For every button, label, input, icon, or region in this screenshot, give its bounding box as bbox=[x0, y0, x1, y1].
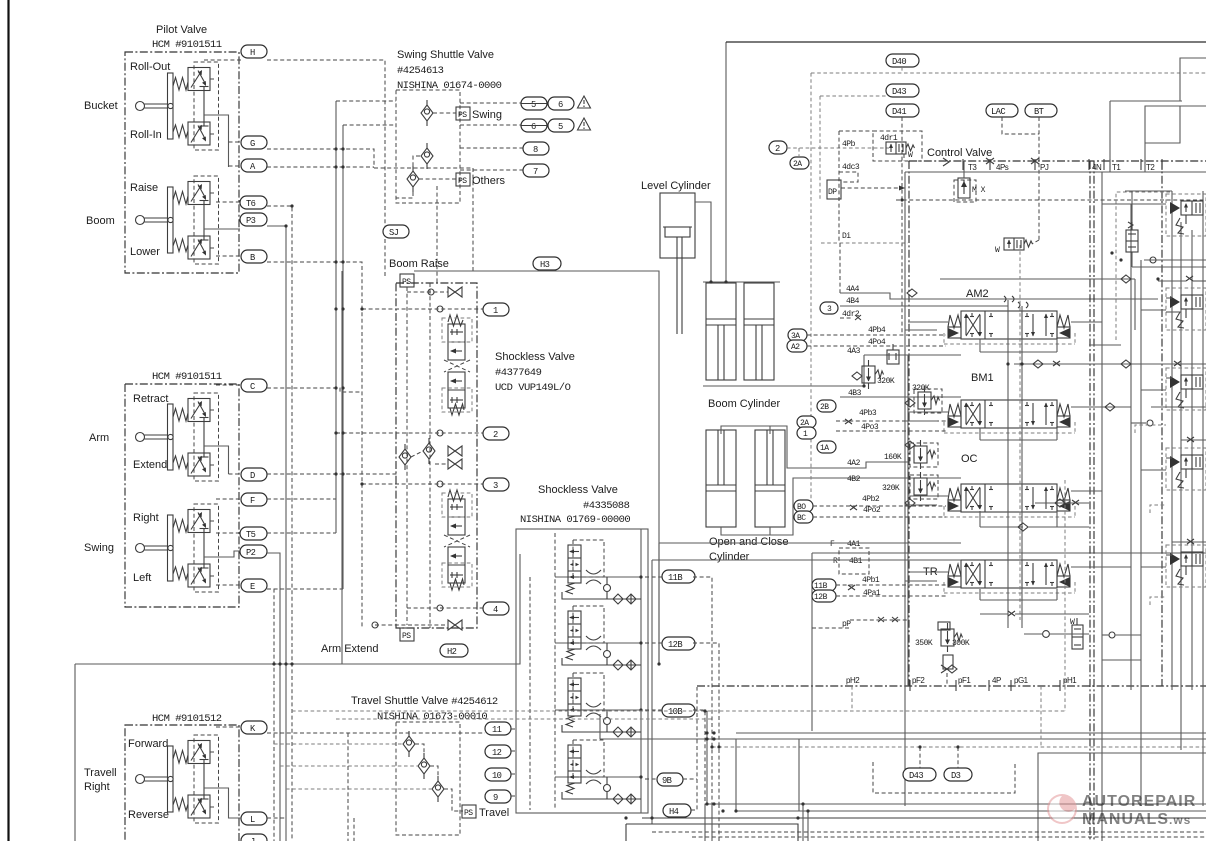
svg-text:320K: 320K bbox=[882, 484, 900, 493]
svg-text:T1: T1 bbox=[1112, 163, 1121, 172]
relief 350K bbox=[915, 622, 970, 669]
svg-text:B: B bbox=[250, 253, 255, 263]
PS others bbox=[456, 173, 506, 187]
wire C stub bbox=[216, 384, 241, 386]
oval 5b bbox=[548, 119, 574, 132]
4N riser T1 bbox=[1109, 101, 1111, 172]
4Po3 dash bbox=[836, 423, 946, 432]
11B drop bbox=[693, 577, 712, 806]
svg-text:4B4: 4B4 bbox=[846, 297, 860, 306]
oval 8 bbox=[523, 142, 549, 155]
wire K line bbox=[267, 732, 485, 734]
svg-text:W: W bbox=[1070, 618, 1075, 627]
svg-text:H3: H3 bbox=[540, 260, 550, 270]
svg-text:Lower: Lower bbox=[130, 246, 160, 258]
svg-text:UCD VUP149L/O: UCD VUP149L/O bbox=[495, 382, 571, 394]
travel shuttle feed 3 bbox=[286, 788, 432, 790]
relief 160K bbox=[884, 440, 938, 469]
spool OC bbox=[944, 484, 1075, 517]
shockless valve unit upper bbox=[442, 315, 472, 415]
wire oc bottom bbox=[721, 527, 770, 535]
port ticks top bbox=[963, 159, 1162, 170]
svg-text:PS: PS bbox=[464, 809, 473, 818]
right bank valve 4 bbox=[1166, 448, 1206, 490]
bottom dashed bus 3 bbox=[712, 746, 1206, 748]
svg-text:Pilot Valve: Pilot Valve bbox=[156, 24, 207, 36]
svg-text:Retract: Retract bbox=[133, 393, 168, 405]
oval 3 bbox=[483, 478, 509, 491]
oval 5 struck bbox=[521, 97, 547, 110]
svg-text:2: 2 bbox=[493, 430, 498, 440]
shockless valve unit lower bbox=[442, 490, 472, 590]
D3 riser bbox=[957, 747, 959, 768]
oval D3 bbox=[944, 768, 972, 781]
connector oval B bbox=[241, 250, 267, 263]
bottom solid pair a bbox=[736, 732, 1206, 734]
svg-text:12B: 12B bbox=[668, 640, 682, 650]
oval BT bbox=[1025, 104, 1057, 117]
junction diamond row2 bbox=[1035, 499, 1089, 507]
svg-text:C: C bbox=[250, 382, 255, 392]
wire F stub bbox=[216, 498, 241, 500]
D41 drop bbox=[901, 117, 903, 335]
bottom solid rail 2 bbox=[642, 817, 1206, 819]
wire bucket output bbox=[204, 115, 229, 167]
row1 check bbox=[407, 287, 462, 297]
pilot bus E dashed bbox=[267, 589, 274, 841]
oval SJ bbox=[383, 225, 409, 238]
connector oval E bbox=[241, 579, 267, 592]
bottom port ticks bbox=[910, 680, 1060, 691]
TR out wires bbox=[980, 567, 1131, 600]
oval 11 bbox=[485, 722, 511, 735]
4B3 line bbox=[840, 389, 961, 398]
svg-text:pF1: pF1 bbox=[958, 676, 971, 685]
right bank valve 2 bbox=[1166, 288, 1206, 330]
svg-text:#4377649: #4377649 bbox=[495, 367, 542, 379]
wire travel output bbox=[204, 788, 241, 818]
rb X mark 3 bbox=[1172, 539, 1206, 544]
T1 wires bbox=[1132, 252, 1206, 267]
svg-text:H2: H2 bbox=[447, 647, 457, 657]
svg-text:T6: T6 bbox=[246, 199, 256, 209]
svg-text:HCM #9101511: HCM #9101511 bbox=[152, 371, 222, 383]
svg-text:F: F bbox=[250, 496, 255, 506]
wire G line bbox=[267, 149, 374, 168]
wire shd3 drop bbox=[396, 192, 413, 198]
travel shuttle valve box bbox=[396, 722, 460, 835]
port marks bbox=[943, 158, 1039, 166]
svg-text:3: 3 bbox=[493, 481, 498, 491]
pilot bus H to boom raise bbox=[267, 60, 385, 278]
4A4 upper line bbox=[940, 275, 1135, 330]
wire shd2 bend bbox=[413, 156, 420, 166]
wire T6 stub bbox=[216, 201, 240, 203]
travel return riser 2 bbox=[658, 543, 660, 664]
svg-text:4P: 4P bbox=[992, 676, 1001, 685]
bottom box drop 3 bbox=[802, 804, 804, 841]
valve body left edge bbox=[904, 172, 906, 806]
bottom solid pair b bbox=[600, 738, 1206, 740]
shockless valve 2 inner dashed left bbox=[554, 533, 556, 810]
pilot unit Boom bbox=[136, 176, 219, 264]
wire oc return bbox=[745, 478, 961, 535]
oval 9 bbox=[485, 790, 511, 803]
svg-text:Others: Others bbox=[472, 175, 506, 187]
oval 4 bbox=[483, 602, 509, 615]
sensor UP bbox=[887, 344, 899, 364]
svg-text:W: W bbox=[995, 246, 1000, 255]
control valve dash-dot boundary bottom bbox=[697, 685, 1206, 687]
Di label bbox=[840, 232, 851, 293]
svg-text:2B: 2B bbox=[820, 403, 829, 412]
top right wire D bbox=[1145, 106, 1180, 143]
travel shuttle 1 bbox=[403, 731, 415, 757]
oval D43 bottom bbox=[903, 768, 936, 781]
svg-text:2: 2 bbox=[775, 144, 780, 154]
BM1 out wires bbox=[980, 403, 1206, 440]
svg-text:Control Valve: Control Valve bbox=[927, 147, 992, 159]
shockless big box bbox=[414, 271, 659, 664]
travel shuttle 3 bbox=[432, 776, 444, 802]
shockless valve 2 inner edge bbox=[640, 529, 642, 813]
svg-text:5: 5 bbox=[558, 122, 563, 132]
pH2 riser bbox=[851, 686, 853, 711]
pH1 riser upper bbox=[1064, 480, 1066, 686]
row 3-line bbox=[362, 481, 483, 487]
4Pa1 dash bbox=[836, 589, 946, 598]
wire L line bbox=[267, 817, 286, 819]
svg-text:AUTOREPAIR: AUTOREPAIR bbox=[1082, 793, 1196, 810]
solenoid 4dr1 bbox=[886, 142, 915, 161]
svg-text:Travel: Travel bbox=[479, 807, 509, 819]
wire 11 to box bbox=[511, 728, 516, 730]
oval 1b bbox=[797, 427, 816, 439]
oval 3A bbox=[788, 329, 807, 341]
wire shd3 to PS bbox=[419, 178, 456, 180]
right bank dashed enclosure bbox=[1116, 192, 1172, 605]
bottom solid rail 1 bbox=[707, 803, 1206, 805]
svg-text:4dc3: 4dc3 bbox=[842, 163, 860, 172]
watermark bbox=[1047, 793, 1196, 828]
4Pb4 dash bbox=[807, 326, 946, 335]
svg-text:PS: PS bbox=[458, 177, 467, 186]
oval 10 bbox=[485, 768, 511, 781]
F 4A1 line bbox=[659, 540, 961, 549]
wire swing out 8 bbox=[460, 147, 523, 149]
travel shuttle links bbox=[415, 744, 463, 811]
svg-text:4B1: 4B1 bbox=[849, 557, 863, 566]
wire 12 to box bbox=[511, 750, 516, 752]
connector oval P2 bbox=[240, 545, 267, 558]
svg-text:1: 1 bbox=[493, 306, 498, 316]
TR box top bbox=[812, 552, 1206, 554]
wire D line bbox=[267, 473, 397, 475]
shuttle valve mid bbox=[421, 143, 433, 169]
svg-text:W: W bbox=[908, 151, 913, 160]
svg-text:350K: 350K bbox=[915, 639, 933, 648]
wire 9B link bbox=[645, 778, 657, 780]
page border left bbox=[7, 0, 9, 841]
shockless unit 10B bbox=[555, 673, 643, 737]
svg-text:1A: 1A bbox=[820, 444, 829, 453]
connector oval J partial bbox=[241, 834, 267, 841]
svg-text:Reverse: Reverse bbox=[128, 809, 169, 821]
oval 12 bbox=[485, 745, 511, 758]
svg-text:4Pb3: 4Pb3 bbox=[859, 409, 877, 418]
mid right wires bbox=[1089, 345, 1153, 426]
H4 drop bbox=[691, 687, 697, 810]
svg-text:11: 11 bbox=[492, 725, 502, 735]
wire E line bbox=[267, 588, 343, 590]
svg-text:6: 6 bbox=[558, 100, 563, 110]
connector oval C bbox=[241, 379, 267, 392]
svg-text:pF2: pF2 bbox=[912, 676, 925, 685]
wire shd to PS bbox=[433, 112, 456, 114]
oval 7 bbox=[523, 164, 549, 177]
9B drop bbox=[683, 778, 697, 780]
4B4 line bbox=[840, 297, 1008, 306]
TR circle junction bbox=[1024, 631, 1089, 638]
connector oval T5 bbox=[240, 527, 267, 540]
svg-text:LAC: LAC bbox=[991, 107, 1005, 117]
svg-text:4Po2: 4Po2 bbox=[863, 506, 881, 515]
wire A stub bbox=[229, 165, 242, 167]
connector oval G bbox=[241, 136, 267, 149]
riser 799 bbox=[798, 739, 800, 811]
row bottom check bbox=[372, 620, 462, 630]
svg-text:#4254613: #4254613 bbox=[397, 65, 444, 77]
wire F line bbox=[267, 498, 336, 500]
svg-text:Travell: Travell bbox=[84, 767, 117, 779]
wire T5 line bbox=[267, 532, 336, 534]
shockless valve 2 box bbox=[516, 529, 648, 813]
PS swing bbox=[456, 107, 502, 121]
svg-text:BM1: BM1 bbox=[971, 372, 994, 384]
bottom dashed bus 2 bbox=[336, 718, 712, 720]
swing bus 6 top bbox=[343, 124, 396, 126]
svg-text:4A3: 4A3 bbox=[847, 347, 861, 356]
port labels top bbox=[968, 163, 1155, 172]
svg-text:MANUALS.ws: MANUALS.ws bbox=[1082, 811, 1191, 828]
rb X mark bbox=[1158, 276, 1206, 281]
R 4B1 line bbox=[652, 548, 961, 574]
oval 2B bbox=[817, 400, 836, 412]
oval 1A bbox=[817, 441, 836, 453]
column inner dashed left bbox=[429, 283, 431, 628]
OC out wires bbox=[980, 491, 1102, 531]
svg-text:Roll-Out: Roll-Out bbox=[130, 61, 170, 73]
svg-text:Cylinder: Cylinder bbox=[709, 551, 750, 563]
wire oc top bbox=[721, 426, 770, 434]
connector oval F bbox=[241, 493, 267, 506]
pilot bus T6 dashed bbox=[267, 206, 292, 841]
shockless big box left bbox=[341, 271, 343, 664]
4dr2 bbox=[840, 310, 861, 320]
svg-text:M X: M X bbox=[972, 186, 986, 195]
svg-text:4Pb: 4Pb bbox=[842, 140, 856, 149]
svg-text:Shockless Valve: Shockless Valve bbox=[538, 484, 618, 496]
svg-text:#4335088: #4335088 bbox=[583, 500, 630, 512]
svg-text:Raise: Raise bbox=[130, 182, 158, 194]
svg-text:Boom Raise: Boom Raise bbox=[389, 258, 449, 270]
relief 320K c bbox=[882, 472, 938, 507]
D43 dashed line bbox=[820, 96, 886, 200]
level cylinder body bbox=[660, 193, 695, 334]
svg-text:12: 12 bbox=[492, 748, 502, 758]
spool BM1 bbox=[944, 400, 1075, 433]
svg-text:8: 8 bbox=[533, 145, 538, 155]
wire swing out 7 bbox=[460, 169, 523, 171]
oval D43 bbox=[886, 84, 919, 97]
rb wire 2 bbox=[1166, 298, 1181, 312]
riser break marks bbox=[1004, 296, 1028, 308]
12B drop bbox=[693, 643, 719, 806]
oval 6 struck bbox=[521, 119, 547, 132]
svg-text:Bucket: Bucket bbox=[84, 100, 118, 112]
PJ solenoid bbox=[995, 238, 1039, 255]
svg-text:BT: BT bbox=[1034, 107, 1044, 117]
pG1 riser bbox=[1040, 686, 1042, 747]
swing shuttle valve box bbox=[396, 90, 460, 203]
row 1-line bbox=[362, 306, 483, 312]
svg-text:Shockless Valve: Shockless Valve bbox=[495, 351, 575, 363]
svg-text:T5: T5 bbox=[246, 530, 256, 540]
main feed riser bbox=[725, 42, 727, 282]
svg-text:D43: D43 bbox=[909, 771, 923, 781]
connector oval P3 bbox=[240, 213, 267, 226]
oval 2 bbox=[769, 141, 787, 154]
svg-text:Roll-In: Roll-In bbox=[130, 129, 162, 141]
main bus 8 bbox=[1202, 191, 1204, 806]
svg-text:H4: H4 bbox=[669, 807, 679, 817]
oval 2A bbox=[790, 157, 809, 169]
svg-text:Boom Cylinder: Boom Cylinder bbox=[708, 398, 780, 410]
valve body left edge2 bbox=[907, 355, 909, 686]
svg-text:Swing: Swing bbox=[472, 109, 502, 121]
oc cylinder L bbox=[706, 430, 736, 527]
svg-text:D: D bbox=[250, 471, 255, 481]
svg-text:DP: DP bbox=[828, 188, 837, 197]
wire 10B link bbox=[645, 709, 662, 711]
oval 9B bbox=[657, 773, 683, 786]
dashed mid line bbox=[896, 199, 1206, 201]
wire 10 to box bbox=[511, 773, 516, 775]
wire D stub bbox=[229, 473, 242, 475]
right bank valve 5 bbox=[1166, 545, 1206, 587]
svg-text:9: 9 bbox=[493, 793, 498, 803]
wire T5 stub bbox=[216, 532, 240, 534]
left stubs AM2 bbox=[905, 322, 948, 330]
junction diamond row1 bbox=[1014, 360, 1206, 368]
rb X mark 2 bbox=[1181, 437, 1206, 442]
rb wire 1 bbox=[1102, 203, 1166, 205]
AM2 out wires bbox=[980, 322, 1102, 352]
oval D40 bbox=[886, 54, 919, 67]
4Pb1 dash bbox=[836, 576, 946, 590]
svg-text:160K: 160K bbox=[884, 453, 902, 462]
main bus 2 bbox=[1130, 204, 1132, 690]
oval 11Bb bbox=[812, 579, 836, 591]
svg-text:P3: P3 bbox=[246, 216, 256, 226]
wire level cyl out bbox=[695, 202, 711, 282]
svg-text:10: 10 bbox=[492, 771, 502, 781]
bottom solid rail 1b bbox=[736, 810, 1206, 812]
svg-text:4Pa1: 4Pa1 bbox=[863, 589, 881, 598]
pilot unit Swing bbox=[136, 504, 219, 592]
main bus 3 bbox=[1140, 260, 1142, 806]
pilot bus P3 solid bbox=[267, 226, 286, 841]
svg-text:Arm: Arm bbox=[89, 432, 109, 444]
svg-text:9B: 9B bbox=[662, 776, 672, 786]
svg-text:320K: 320K bbox=[877, 377, 895, 386]
4A4 line bbox=[840, 285, 1158, 299]
svg-text:3: 3 bbox=[827, 305, 832, 314]
PJ gray dash riser bbox=[1019, 245, 1021, 620]
TR right solenoid bbox=[1070, 618, 1083, 649]
svg-text:11B: 11B bbox=[668, 573, 682, 583]
left stubs TR bbox=[905, 572, 948, 581]
svg-text:7: 7 bbox=[533, 167, 538, 177]
outer gray dashed box left bbox=[810, 73, 812, 500]
T1 solenoid bbox=[1126, 222, 1138, 252]
PS arm extend bbox=[400, 628, 414, 641]
bottom dashed box bbox=[873, 762, 1015, 793]
svg-text:AM2: AM2 bbox=[966, 288, 989, 300]
oval H4 bbox=[663, 804, 691, 817]
svg-text:J: J bbox=[250, 837, 255, 841]
pilot valve block 3 box bbox=[125, 725, 239, 841]
warning triangle 1 bbox=[578, 96, 591, 108]
T3 check valve bbox=[954, 161, 986, 202]
oval 11B bbox=[662, 570, 695, 583]
svg-text:R: R bbox=[833, 557, 838, 566]
connector oval H bbox=[241, 45, 267, 58]
svg-text:4Pb4: 4Pb4 bbox=[868, 326, 886, 335]
svg-text:D40: D40 bbox=[892, 57, 906, 67]
pilot box bbox=[821, 131, 908, 243]
svg-text:HCM #9101512: HCM #9101512 bbox=[152, 713, 222, 725]
D40 dashed line bbox=[811, 67, 1206, 73]
section boundary 4N bbox=[1089, 161, 1091, 841]
svg-text:T3: T3 bbox=[968, 163, 977, 172]
4Po2 dash bbox=[813, 506, 946, 517]
bottom circulation bbox=[1102, 632, 1141, 660]
svg-text:Forward: Forward bbox=[128, 738, 168, 750]
connector oval L bbox=[241, 812, 267, 825]
svg-text:D41: D41 bbox=[892, 107, 906, 117]
bottom solid box bbox=[626, 824, 798, 841]
D43 riser bbox=[919, 747, 921, 768]
wire 9 to box bbox=[511, 795, 516, 797]
bottom right box bbox=[1038, 753, 1206, 841]
svg-text:5: 5 bbox=[531, 100, 536, 110]
main feed top bbox=[726, 41, 1206, 43]
svg-text:A2: A2 bbox=[791, 343, 800, 352]
svg-text:Swing: Swing bbox=[84, 542, 114, 554]
oval A2 bbox=[787, 340, 807, 352]
L drop right bbox=[353, 818, 355, 841]
shuttle valve swing bbox=[421, 100, 433, 126]
TR box bbox=[811, 553, 813, 731]
wire swing output P2 bbox=[204, 551, 240, 557]
DP box bbox=[827, 180, 841, 199]
shuttle valve others bbox=[407, 166, 419, 192]
svg-text:Travel Shuttle Valve #4254612: Travel Shuttle Valve #4254612 bbox=[351, 695, 498, 708]
svg-text:Di: Di bbox=[842, 232, 851, 241]
bottom solid pair b drop bbox=[599, 714, 601, 739]
oval 1 bbox=[483, 303, 509, 316]
